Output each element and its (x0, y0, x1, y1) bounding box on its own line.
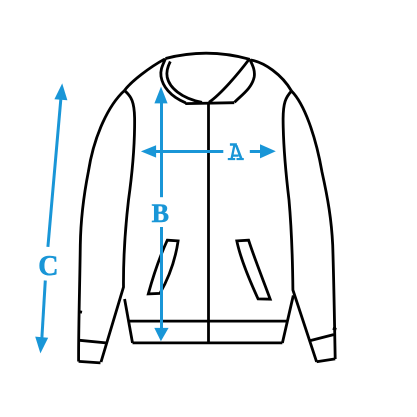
arrow A right head (260, 144, 276, 158)
hem band bottom line (133, 341, 283, 344)
right pocket (237, 240, 270, 299)
arrow B top head (154, 87, 167, 104)
right cuff tick (333, 328, 337, 329)
left cuff bottom edge (79, 361, 101, 363)
collar inner fold right (209, 59, 249, 102)
arrow B shaft upper (160, 102, 163, 198)
right cuff bottom edge (317, 359, 336, 362)
left pocket (148, 240, 178, 294)
body left edge (125, 299, 133, 343)
collar left outer edge (161, 59, 186, 103)
arrow C shaft lower (42, 281, 45, 338)
arrow C shaft upper (48, 100, 61, 247)
arrow A shaft right (250, 150, 262, 153)
left sleeve inner edge (101, 91, 135, 363)
left cuff top seam (80, 340, 106, 343)
body right edge (282, 296, 293, 343)
right cuff top seam (309, 335, 333, 341)
arrow A left head (141, 145, 156, 157)
arrow B bottom head (154, 328, 168, 341)
arrow C bottom head (35, 337, 48, 354)
left cuff tick (79, 310, 82, 314)
arrow A label (228, 143, 244, 160)
collar right outer edge (235, 59, 255, 102)
right shoulder seam (251, 60, 292, 91)
right sleeve outer edge (292, 91, 336, 359)
right sleeve inner edge (283, 91, 317, 362)
left shoulder seam (125, 59, 165, 90)
center front zipper line (207, 104, 210, 343)
arrow A shaft left (155, 150, 224, 153)
collar bottom line (185, 101, 234, 105)
collar inner fold left (167, 62, 202, 103)
collar top edge (166, 53, 250, 59)
svg-text:B: B (152, 199, 169, 228)
arrow C top head (54, 83, 67, 100)
svg-text:C: C (38, 251, 58, 282)
arrow B shaft lower (160, 227, 163, 330)
hem band top line (129, 320, 288, 323)
left sleeve outer edge (79, 91, 125, 362)
